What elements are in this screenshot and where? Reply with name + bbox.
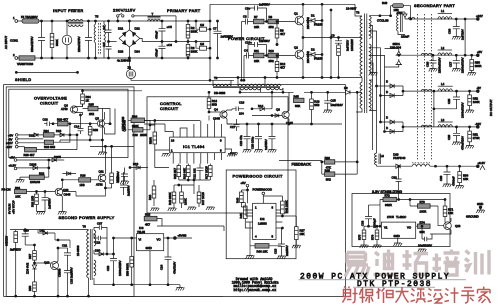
svg-text:C3: C3 — [243, 15, 247, 19]
svg-text:2K05: 2K05 — [140, 133, 147, 137]
svg-text:330R: 330R — [475, 64, 482, 68]
watermark big characters — [345, 250, 489, 277]
diode D19 — [28, 133, 43, 138]
diode D30 — [94, 249, 115, 256]
resistor R31 10K — [15, 189, 57, 198]
svg-text:470uF: 470uF — [155, 49, 159, 57]
resistor R3 330K — [186, 41, 197, 60]
svg-text:2R2: 2R2 — [269, 25, 275, 29]
capacitor C36 — [439, 166, 456, 187]
resistor R46b 100K — [174, 184, 188, 208]
svg-text:CIRCUIT: CIRCUIT — [160, 106, 179, 111]
wire feedback — [279, 161, 323, 175]
3.3V stabilizing box — [352, 194, 450, 247]
resistor R49 15R — [382, 1, 411, 19]
svg-text:PS-ON: PS-ON — [2, 188, 11, 192]
output -5V — [476, 86, 481, 92]
svg-text:8K2: 8K2 — [326, 178, 331, 182]
resistor R2 330K — [186, 20, 197, 42]
resistor R22 100R — [20, 172, 49, 185]
svg-text:10nF/100V: 10nF/100V — [418, 244, 432, 248]
resistor R28 4K7 — [24, 134, 79, 157]
capacitor C30s 2nF/1KV — [10, 228, 29, 251]
resistor R76 — [371, 225, 379, 245]
resistor R57 — [25, 236, 36, 263]
output +3.3V — [476, 161, 485, 170]
svg-text:R24: R24 — [44, 129, 50, 133]
svg-text:IC2: IC2 — [260, 217, 265, 221]
ground standby pins — [16, 180, 25, 183]
connector pin +5V — [8, 133, 28, 137]
wire +12V to +5V bleeder — [464, 19, 466, 55]
ground powergood right — [277, 256, 286, 259]
wire bleeder mid rail — [162, 41, 210, 43]
svg-text:R11: R11 — [254, 49, 259, 53]
svg-text:PRIMARY PART: PRIMARY PART — [167, 8, 201, 13]
svg-text:R15 2K7: R15 2K7 — [173, 168, 177, 179]
wire primary bottom rail — [214, 77, 362, 79]
svg-text:L1: L1 — [441, 9, 445, 13]
svg-text:D30: D30 — [95, 249, 101, 253]
control circuit box — [147, 97, 288, 213]
svg-text:ZD9 6V2: ZD9 6V2 — [26, 262, 30, 274]
svg-text:SHIELD: SHIELD — [15, 77, 31, 82]
resistor R45 56R — [290, 92, 304, 108]
svg-text:+5V: +5V — [477, 50, 482, 54]
ground driver caps 3 — [268, 150, 277, 153]
svg-text:1K8: 1K8 — [80, 183, 85, 187]
wire +5V row — [398, 54, 477, 56]
svg-text:4700uF: 4700uF — [452, 176, 456, 186]
capacitor C11 1nF — [193, 164, 204, 179]
connector pin +5V standby — [10, 155, 48, 161]
svg-text:104: 104 — [239, 112, 244, 116]
ground driver caps 2 — [254, 150, 263, 153]
ground C15 area — [324, 113, 331, 115]
svg-text:IC1 TL494: IC1 TL494 — [183, 144, 205, 149]
inductor L3 — [438, 118, 453, 127]
subtitle strike line — [353, 286, 435, 288]
svg-text:GND: GND — [477, 202, 483, 206]
output -12V — [475, 122, 481, 128]
wire base drive row 1 — [241, 22, 246, 82]
svg-text:10uF/16V: 10uF/16V — [331, 103, 343, 107]
svg-text:1N4148: 1N4148 — [30, 180, 40, 184]
resistor R48 390K — [168, 185, 176, 208]
svg-text:INPUT FILTER: INPUT FILTER — [53, 8, 84, 13]
wire cap midpoint to bridge — [109, 41, 117, 43]
resistor R19 510R — [149, 120, 170, 164]
svg-text:4n7: 4n7 — [102, 42, 106, 47]
svg-text:C22: C22 — [95, 241, 101, 245]
ground R75 — [360, 245, 369, 248]
svg-text:L3: L3 — [441, 118, 445, 122]
wire AC bottom line — [18, 57, 210, 59]
svg-text:SECONDARY PART: SECONDARY PART — [414, 3, 455, 8]
diode D23 — [118, 38, 129, 53]
capacitor C14 — [74, 114, 87, 134]
svg-text:D83-004: D83-004 — [390, 46, 401, 50]
capacitor C33 1000pF — [361, 205, 382, 228]
pin POWERGOOD — [253, 187, 272, 203]
svg-text:D18: D18 — [56, 129, 62, 133]
capacitor C12 2u2/50V — [116, 168, 130, 185]
diode D205 — [47, 155, 64, 162]
resistor R26 47K — [322, 156, 357, 169]
powergood box — [226, 170, 296, 259]
svg-text:C16: C16 — [239, 101, 245, 105]
svg-text:D205: D205 — [54, 155, 61, 159]
resistor R23 3K3 — [43, 134, 71, 149]
svg-text:+12V: +12V — [476, 14, 483, 18]
wire aux supply row — [239, 91, 362, 93]
wire driver mid connections — [227, 109, 342, 131]
resistor R12 4K7 — [275, 55, 285, 79]
svg-text:POWERGOOD CIRCUIT: POWERGOOD CIRCUIT — [233, 174, 283, 179]
resistor R4 1M — [195, 20, 211, 31]
diode D13 — [129, 162, 148, 169]
svg-text:R16 36K: R16 36K — [183, 168, 187, 179]
resistor R32 1K8 — [31, 192, 39, 212]
svg-text:270R: 270R — [473, 136, 480, 140]
svg-text:A733: A733 — [61, 107, 68, 111]
svg-text:L4: L4 — [441, 82, 445, 86]
resistor R25 8K2 — [322, 168, 357, 181]
svg-text:R28 4K7: R28 4K7 — [24, 153, 35, 157]
resistor R9 4K7 — [275, 21, 285, 46]
ground powergood left — [246, 256, 255, 259]
svg-text:962R: 962R — [385, 203, 392, 207]
resistor R17 1K15 — [205, 164, 213, 180]
svg-text:C9: C9 — [331, 34, 335, 38]
capacitor C2 220nF/275V — [77, 20, 92, 59]
svg-text:Q1: Q1 — [294, 12, 298, 16]
saturable reactor L5 — [412, 163, 476, 167]
svg-text:+C5: +C5 — [167, 25, 173, 29]
svg-text:1uF/50V: 1uF/50V — [259, 3, 270, 7]
label PS-ON — [2, 186, 21, 192]
capacitor C26 — [425, 55, 441, 73]
svg-text:R59 560R: R59 560R — [125, 263, 129, 276]
svg-text:47uF/16V: 47uF/16V — [173, 262, 177, 274]
svg-text:DB-0888: DB-0888 — [214, 91, 226, 95]
svg-text:68K/1W: 68K/1W — [5, 236, 9, 246]
ground OVP — [98, 152, 107, 155]
resistor R7 22R — [254, 15, 265, 29]
svg-text:C10+: C10+ — [245, 41, 252, 45]
selector switch 230V/115V — [113, 8, 177, 43]
svg-text:C14: C14 — [74, 125, 80, 129]
svg-text:2SC4242: 2SC4242 — [306, 17, 310, 29]
svg-text:C13: C13 — [43, 118, 49, 122]
ground R32 C17 — [36, 212, 45, 215]
resistor R14 3K3 — [207, 91, 217, 112]
capacitor C18 2u2/50V — [274, 227, 290, 256]
svg-text:R48 390K: R48 390K — [168, 192, 172, 205]
svg-text:CTX1.0B: CTX1.0B — [377, 19, 389, 23]
ground extra row — [229, 153, 238, 156]
svg-text:27C5: 27C5 — [387, 215, 394, 219]
resistor R52 100R — [465, 91, 479, 113]
varistor Z1 — [17, 56, 35, 66]
svg-text:C33: C33 — [361, 220, 365, 226]
capacitor C5 470uF — [155, 21, 173, 42]
svg-text:T2: T2 — [214, 76, 218, 80]
resistor R40 10K — [235, 189, 248, 207]
svg-text:+5VSB: +5VSB — [178, 234, 187, 238]
resistor R58 1K — [28, 282, 36, 297]
connector pin +3.3V standby — [9, 163, 29, 170]
wire control upper bus — [144, 116, 232, 125]
svg-text:T: T — [152, 12, 154, 16]
resistor R34 1K — [81, 90, 142, 107]
wire feedback sense vertical — [356, 92, 358, 174]
wire primary DC bus — [209, 4, 355, 81]
ground R37 — [292, 245, 301, 248]
svg-text:C27: C27 — [449, 61, 453, 67]
svg-text:Q13: Q13 — [455, 224, 461, 228]
resistor R37s 100R — [110, 146, 120, 188]
svg-text:C28: C28 — [447, 98, 451, 104]
svg-text:Q2: Q2 — [294, 46, 298, 50]
svg-text:C15 2u2/50V: C15 2u2/50V — [70, 267, 74, 284]
ground IC1 bottom 1 — [151, 208, 160, 211]
resistor R59 560R — [125, 237, 133, 286]
svg-text:D: D — [386, 90, 388, 94]
wire standby secondary common — [94, 278, 184, 291]
IC2 LM393 — [241, 203, 282, 239]
svg-text:VI: VI — [139, 238, 142, 242]
svg-text:2SC4242: 2SC4242 — [306, 51, 310, 63]
capacitor C28 1000uF/16V — [433, 90, 465, 127]
wire standby internal — [63, 187, 112, 196]
transistor Q1 2SC4242 — [294, 3, 310, 37]
svg-text:http://panouk.comp.cz: http://panouk.comp.cz — [234, 288, 277, 293]
transistor Q5 C945 — [95, 112, 105, 134]
diode D29 F16PD40 — [377, 152, 413, 168]
ground T3 center tap — [369, 63, 378, 76]
resistor R51 270R — [465, 127, 479, 149]
IC3 78L05 — [114, 226, 193, 286]
connector pin -12V — [6, 145, 25, 149]
svg-text:C37: C37 — [97, 222, 103, 226]
svg-text:D1: D1 — [311, 14, 315, 18]
svg-text:C18: C18 — [274, 248, 278, 254]
capacitor C20 100pF — [251, 124, 263, 150]
svg-text:C20 100p: C20 100p — [251, 136, 255, 149]
svg-text:R40: R40 — [235, 197, 239, 203]
wire half bridge midpoint — [302, 9, 362, 79]
svg-text:78L05: 78L05 — [137, 230, 145, 234]
resistor R18c — [148, 180, 156, 206]
resistor R43 2K05 — [128, 120, 155, 137]
transistor Q2 2SC4242 — [294, 38, 310, 79]
svg-text:CIRCUIT: CIRCUIT — [40, 101, 59, 106]
ground IC1 left pin — [162, 154, 171, 157]
wire secondary tap rails — [369, 15, 390, 153]
ground C34 — [418, 249, 427, 252]
output +5VSB — [167, 234, 187, 240]
capacitor C19 47n — [239, 131, 251, 150]
svg-text:15K: 15K — [300, 232, 305, 236]
svg-text:D: D — [386, 80, 388, 84]
label 9V RUN 5V STOP — [8, 200, 16, 214]
svg-text:R35: R35 — [89, 103, 95, 107]
svg-text:R75: R75 — [358, 234, 362, 240]
svg-text:Q5: Q5 — [95, 117, 99, 121]
capacitor C30 1000uF/16V — [448, 19, 465, 40]
transistor Q12 C3866 — [34, 248, 62, 297]
svg-text:CON1: CON1 — [10, 39, 18, 43]
svg-text:C4: C4 — [244, 49, 248, 53]
svg-text:3K3: 3K3 — [314, 103, 319, 107]
diode D10 — [397, 11, 412, 38]
svg-text:D24: D24 — [135, 50, 141, 54]
toroid winding bumps — [408, 17, 432, 127]
svg-text:2R2: 2R2 — [269, 59, 275, 63]
svg-text:Q12: Q12 — [44, 261, 50, 265]
capacitor C10 1uF/50V — [245, 39, 278, 57]
capacitor C24 47uF/16V — [160, 238, 177, 286]
diode D7 FR302 — [380, 116, 404, 125]
svg-text:FR155: FR155 — [314, 23, 323, 27]
svg-text:10R: 10R — [448, 211, 453, 215]
svg-text:R42 100K: R42 100K — [285, 200, 289, 213]
svg-text:230V/115V: 230V/115V — [113, 8, 136, 13]
author text block — [232, 277, 279, 293]
capacitor C13 — [43, 118, 55, 127]
resistor R71 10R — [443, 200, 453, 223]
svg-text:3K3: 3K3 — [212, 103, 217, 107]
discharge tube Z1 — [62, 20, 72, 59]
svg-text:T6: T6 — [83, 225, 87, 229]
diode D1 FR155 — [306, 14, 323, 27]
IC1 TL494 — [170, 119, 225, 164]
capacitor C17 — [230, 119, 240, 131]
svg-text:1uF/50V: 1uF/50V — [264, 139, 268, 150]
svg-text:Q4: Q4 — [214, 108, 218, 112]
svg-text:100R: 100R — [473, 100, 480, 104]
resistor R24 — [43, 129, 54, 137]
ground IC1 bottom 2 — [168, 208, 177, 211]
resistor R33 — [88, 123, 98, 140]
diode D18 — [54, 124, 70, 137]
svg-text:F16PD40: F16PD40 — [393, 156, 405, 160]
resistor R6 2R2 — [264, 15, 295, 29]
zener ZD9 6V2 — [26, 262, 37, 283]
svg-text:FR155: FR155 — [314, 57, 323, 61]
pin GND output — [466, 202, 485, 219]
svg-text:C11 102: C11 102 — [193, 168, 197, 179]
diode D2 FR155 — [306, 48, 323, 61]
capacitor C6 470uF — [155, 20, 173, 59]
svg-text:C7: C7 — [213, 27, 217, 31]
svg-text:1uF/50V: 1uF/50V — [48, 198, 52, 209]
svg-text:100R: 100R — [116, 176, 120, 183]
capacitor C17s 1uF/50V — [42, 192, 52, 212]
wire IC1 top connections — [144, 124, 187, 132]
svg-text:D21: D21 — [118, 27, 124, 31]
wire standby 5VSB link — [157, 226, 224, 231]
toroid core dashed — [418, 14, 432, 160]
svg-text:510R: 510R — [149, 137, 153, 144]
svg-text:C29: C29 — [447, 134, 451, 140]
wire +12V row — [411, 18, 477, 20]
thermistor Z2 — [126, 57, 210, 80]
capacitor C9 2nF/1KV — [331, 34, 350, 52]
svg-text:C31: C31 — [62, 244, 68, 248]
svg-text:10K: 10K — [15, 195, 20, 199]
svg-text:Q11: Q11 — [99, 170, 105, 174]
resistor R5 1M — [195, 41, 211, 51]
svg-text:D: D — [386, 116, 388, 120]
svg-text:+5V STOP: +5V STOP — [12, 200, 16, 214]
svg-text:C26: C26 — [425, 61, 429, 67]
resistor R73 — [380, 190, 446, 226]
svg-text:C36: C36 — [439, 175, 443, 181]
enclosure box outer — [4, 85, 346, 297]
wire OVP internal — [60, 109, 115, 153]
resistor R36 1K8 — [61, 174, 98, 187]
svg-text:100R/2W: 100R/2W — [350, 39, 354, 51]
svg-text:R23 3K3: R23 3K3 — [44, 145, 55, 149]
svg-text:FEEDBACK: FEEDBACK — [292, 163, 312, 167]
svg-text:220nF: 220nF — [401, 35, 409, 39]
svg-text:C30: C30 — [448, 28, 452, 34]
svg-text:T5: T5 — [95, 15, 99, 19]
svg-text:-12V: -12V — [6, 145, 12, 149]
resistor R8 100R/2W — [337, 39, 354, 79]
svg-text:LM393: LM393 — [258, 222, 267, 226]
resistor R44 390K — [128, 114, 150, 128]
current transformer CT1 — [377, 12, 405, 35]
resistor R15 2K7 — [173, 164, 181, 180]
svg-text:R33: R33 — [93, 128, 99, 132]
svg-text:T1: T1 — [72, 9, 76, 13]
svg-text:T3: T3 — [356, 11, 360, 15]
transistor Q11 A733 — [96, 146, 106, 188]
capacitor C7 1uF/250V — [213, 20, 233, 59]
pin +5V powergood — [241, 181, 249, 203]
resistor R74 39R — [416, 220, 430, 234]
svg-text:C3866: C3866 — [58, 268, 62, 277]
ground IC1 bottom 4 — [206, 207, 215, 210]
svg-text:R6: R6 — [269, 15, 273, 19]
svg-text:1M: 1M — [200, 42, 205, 46]
diode D14 — [244, 91, 273, 111]
label OVERVOLTAGE CIRCUIT — [34, 96, 67, 106]
svg-text:R46 10K: R46 10K — [257, 250, 268, 254]
svg-text:C945: C945 — [213, 117, 220, 121]
wire AC top line — [18, 20, 210, 22]
ground driver caps 1 — [243, 150, 252, 153]
inductor L6 — [374, 153, 384, 166]
svg-text:D22: D22 — [135, 27, 141, 31]
connector pin -5V — [8, 137, 43, 141]
svg-text:2u2/50V: 2u2/50V — [285, 245, 289, 256]
svg-text:GND: GND — [394, 234, 400, 238]
svg-text:4K7: 4K7 — [280, 66, 285, 70]
svg-text:100R: 100R — [420, 210, 427, 214]
svg-text:D2: D2 — [311, 48, 315, 52]
wire clamp bus — [321, 3, 323, 77]
svg-text:R7: R7 — [254, 15, 258, 19]
svg-text:330K: 330K — [191, 30, 198, 34]
resistor R29 4K7 — [53, 118, 110, 126]
svg-text:D: D — [386, 126, 388, 130]
svg-text:16: 16 — [171, 139, 175, 143]
ground R76 — [373, 245, 382, 248]
